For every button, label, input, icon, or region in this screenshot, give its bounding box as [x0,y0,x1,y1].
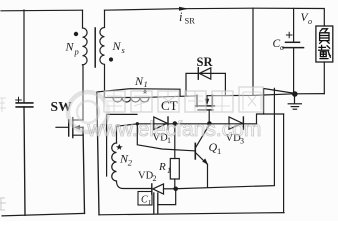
node Ns phase dot [109,57,113,61]
wire input cap to bottom rail [24,107,25,215]
wire clamp to ground junction [264,89,295,115]
transistor Q1 emitter arrow [202,158,208,164]
capacitor C1 [138,192,152,206]
wire primary bottom rail [2,213,85,216]
svg-text:CT: CT [161,98,178,113]
transistor SW body arrow [74,125,80,130]
diode VD3 [229,117,242,129]
diode VD1 [154,117,167,130]
transistor SR sync rectifier MOSFET [196,95,198,106]
wire gate drive W1 [137,123,256,125]
ground [294,94,296,103]
resistor R1 [174,124,176,159]
core CT L-shaped core line [107,114,137,176]
current arrow i_SR [179,7,189,11]
node N1 phase star [142,89,147,94]
wire top-left input [1,9,83,12]
inductor Np primary winding [83,10,88,65]
svg-text:www.elecfans.com: www.elecfans.com [87,118,262,141]
wire input cap drop [23,10,25,103]
wire top output rail [105,8,325,26]
wire SR up to top rail [252,8,254,95]
load box 负载 [316,26,333,62]
node C junction (R1/VD2/C1) [173,187,178,192]
node gate/collector junction [207,121,212,126]
transistor SR body arrow [205,99,210,106]
wire W1 jog to W2 [257,114,284,124]
transistor Q1 [194,143,196,159]
node R1 top junction [173,121,178,126]
capacitor Co output [293,8,295,42]
node Np phase dot [74,32,78,36]
wire SW source down [83,127,85,213]
wire N1 to SR drain [149,96,197,97]
node output ground junction [292,91,298,97]
inductor N2 CT secondary winding [112,143,152,189]
transistor SW (primary MOSFET) [56,126,69,128]
load box vertical leads [323,62,325,94]
diode SR body diode branch [186,73,225,95]
node B junction [136,122,139,125]
wire V2 down to bottom rail [283,114,285,213]
inductor N1 current-transformer primary [112,98,149,103]
wire SW drain to Np [82,65,85,120]
wire drive bottom rail [99,213,284,215]
core transformer T [94,28,96,67]
capacitor input (unlabeled electrolytic) [16,102,33,104]
wire Ns bottom to N1 [105,97,113,99]
wire left drive return vertical [97,93,99,215]
wire V1 node-C to ground [176,88,275,188]
wire node B to Q1 base [137,124,195,151]
wire gate-return (source strap) horizontal [97,89,180,97]
node N2 phase star [116,144,123,150]
wire N2 top to node B [117,124,138,143]
inductor Ns secondary winding [100,10,105,97]
text 负载 load label (hand-drawn strokes) [318,28,331,58]
wire SR drain segment to output ground [207,94,324,96]
diode VD2 [151,184,153,194]
wire SR gate lead [208,110,210,124]
